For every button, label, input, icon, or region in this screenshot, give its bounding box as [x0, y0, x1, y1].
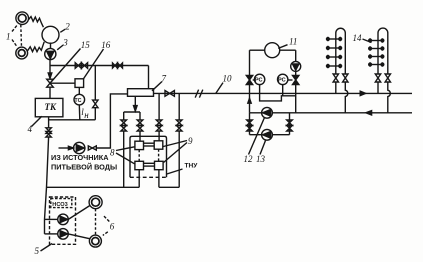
- upper header line: [50, 65, 149, 67]
- double link top pair: [144, 142, 155, 144]
- wire valve to filter 16: [50, 82, 75, 84]
- svg-text:н: н: [84, 110, 89, 120]
- well 1 upper (double circle): [16, 12, 29, 25]
- wire tank2 to pump3: [50, 43, 52, 49]
- col2 right hop over main to return: [388, 82, 390, 113]
- U return right: [159, 186, 179, 188]
- valve col1 left: [333, 74, 338, 82]
- wire filter to TC: [78, 87, 80, 94]
- svg-text:РС: РС: [255, 78, 263, 84]
- leader 9b: [164, 143, 188, 163]
- right riser to valve: [295, 71, 297, 75]
- distribution header 7 (rect): [128, 89, 154, 97]
- valve pair on header (right): [113, 63, 118, 68]
- wire pump lower to well: [68, 234, 89, 239]
- heat exchanger square s1: [135, 141, 144, 149]
- injection well 6 upper (double circle): [89, 196, 102, 209]
- dashed vertical links: [138, 150, 140, 162]
- leader 8b: [116, 153, 135, 164]
- heat exchanger square s2: [154, 141, 163, 149]
- dosing pump upper (circle right triangle): [58, 214, 69, 225]
- leader 5: [41, 244, 53, 252]
- svg-text:НСО3: НСО3: [52, 202, 67, 208]
- flow arrow right on main: [360, 91, 365, 95]
- check valve: [88, 146, 96, 150]
- regulator PC left: [254, 74, 264, 84]
- drinking water inlet line: [59, 147, 75, 149]
- pump 12 (circle left triangle): [262, 107, 273, 118]
- double valve p4: [176, 120, 182, 126]
- pipe p3 to condenser: [158, 131, 160, 141]
- flow arrow down: [48, 73, 52, 78]
- col1 right hop over main to return: [345, 82, 347, 113]
- double valve p1: [121, 120, 127, 126]
- stub col1 left to main: [335, 82, 337, 93]
- TNU dashed boundary box: [130, 136, 167, 177]
- heat exchanger square s4: [155, 161, 164, 169]
- pipe p4 lower: [178, 131, 180, 187]
- leader 8a: [116, 147, 135, 151]
- wire pump3 down: [49, 60, 51, 75]
- pump 3 (circle with down triangle): [45, 48, 56, 59]
- svg-text:ТС: ТС: [74, 98, 81, 104]
- wire branch down at x=95: [94, 66, 96, 101]
- diagram groups inserted below: [6, 12, 149, 234]
- wire TK down: [48, 117, 50, 128]
- valve pair on header (left): [75, 63, 81, 69]
- leader 1a: [12, 25, 18, 32]
- well 1 lower (double circle): [16, 47, 28, 59]
- svg-text:2: 2: [65, 21, 70, 31]
- right riser lower: [289, 113, 291, 135]
- valve col2 left: [375, 74, 380, 82]
- svg-text:10: 10: [223, 74, 233, 84]
- leader 2: [60, 29, 65, 32]
- pipe p1 lower: [123, 131, 125, 187]
- impulse staircase wire: [260, 93, 296, 101]
- wavy link lower well to pump line: [28, 42, 45, 52]
- control valve right (filled): [293, 75, 299, 80]
- leader 4: [32, 116, 42, 126]
- TK box: [35, 98, 63, 116]
- svg-text:15: 15: [81, 40, 91, 50]
- filter 16 (square): [75, 79, 84, 88]
- svg-text:8: 8: [110, 147, 115, 157]
- wire lower horizontal: [49, 119, 96, 121]
- double link bottom pair: [144, 162, 155, 164]
- double valve left riser: [247, 120, 253, 126]
- leader 6: [104, 216, 110, 222]
- leader 11: [278, 45, 287, 49]
- right riser through main to return: [295, 85, 297, 113]
- valve 15 (vertical bowtie below pump): [47, 79, 54, 87]
- loop top left: [250, 49, 265, 51]
- bottom run with pump 13: [250, 134, 290, 136]
- valve on main line: [165, 91, 174, 97]
- heat exchanger square s3: [135, 161, 144, 169]
- pipe p1 upper: [123, 112, 125, 120]
- pipe p4 from main: [178, 93, 180, 120]
- leader 16: [83, 49, 104, 80]
- wire riser to pump upper: [45, 218, 58, 220]
- svg-text:ИЗ ИСТОЧНИКА: ИЗ ИСТОЧНИКА: [51, 153, 109, 162]
- svg-text:14: 14: [353, 33, 363, 43]
- stub PC-right down: [282, 84, 284, 96]
- wire valve to TK box: [49, 87, 51, 98]
- svg-text:РС: РС: [278, 78, 286, 84]
- flow arrow up on left riser: [248, 98, 251, 103]
- flow arrow right: [68, 146, 73, 150]
- leader 3: [57, 45, 63, 50]
- wire header7 down: [134, 96, 136, 112]
- dashed link between wells: [20, 25, 23, 47]
- leader 12: [249, 118, 265, 155]
- column 14 #1 riser pair with arc: [336, 28, 346, 74]
- leader 7: [152, 82, 162, 91]
- pump 13 (circle left triangle): [262, 129, 273, 140]
- wavy link upper well to tank 2: [29, 17, 44, 28]
- sensor TC (circle): [74, 94, 85, 105]
- stub PC-right to valve: [288, 79, 293, 81]
- wire pump upper to well: [68, 206, 89, 220]
- svg-text:ПИТЬЕВОЙ ВОДЫ: ПИТЬЕВОЙ ВОДЫ: [51, 162, 117, 171]
- wire s3 down: [138, 170, 140, 188]
- HCO3 label box: [51, 199, 72, 208]
- return line: [250, 112, 413, 114]
- U return left: [47, 186, 140, 188]
- injection well 6 lower (double circle): [89, 235, 101, 247]
- left riser lower with valve: [249, 113, 251, 135]
- svg-text:1: 1: [6, 32, 11, 42]
- right riser upper: [295, 50, 297, 61]
- stub PC-left to valve: [253, 79, 255, 81]
- leader 9a: [163, 141, 187, 147]
- nozzles col1: [327, 37, 342, 68]
- regulator PC right: [278, 74, 288, 84]
- circulation pump (circle down triangle): [291, 61, 301, 71]
- wire s4 down: [158, 170, 160, 188]
- boiler 11 (circle): [265, 43, 280, 58]
- wire left riser down: [45, 137, 49, 234]
- leader 13: [260, 141, 266, 155]
- dashed dosing unit box 5: [50, 197, 76, 244]
- dashed link wells: [95, 209, 97, 235]
- wire header down to rect 7: [148, 66, 150, 89]
- valve on branch: [93, 100, 98, 108]
- leader 14: [363, 39, 372, 43]
- pipe p3 from main: [158, 93, 160, 120]
- svg-text:12: 12: [244, 154, 254, 164]
- main supply line: [154, 92, 413, 94]
- valve col2 right: [385, 74, 390, 82]
- column 14 #2 riser pair with arc: [378, 28, 388, 74]
- pipe p2 to evaporator: [139, 131, 141, 141]
- nozzles col2: [369, 38, 384, 66]
- double valve below TK: [46, 128, 51, 134]
- valve col1 right: [343, 74, 348, 82]
- leader 15: [52, 49, 81, 82]
- double valve p2: [137, 120, 143, 126]
- leader 10: [216, 83, 223, 94]
- dosing pump lower (circle right triangle): [58, 229, 69, 240]
- tank 2 (circle): [42, 26, 59, 43]
- loop top right: [280, 49, 296, 51]
- svg-text:5: 5: [35, 246, 40, 256]
- svg-text:9: 9: [188, 136, 193, 146]
- leader TNU: [167, 169, 183, 174]
- svg-text:16: 16: [101, 40, 111, 50]
- double valve right riser: [287, 120, 293, 126]
- svg-text:6: 6: [110, 221, 115, 231]
- line break mark 10: [195, 90, 198, 98]
- manifold wire: [124, 111, 140, 113]
- wire riser to pump lower: [45, 233, 58, 235]
- pipe p2 upper: [139, 112, 141, 120]
- stub col2 left to main: [377, 82, 379, 93]
- wire water to header 7: [96, 94, 127, 148]
- svg-text:ТК: ТК: [45, 102, 57, 112]
- flow arrow down: [134, 106, 138, 111]
- wire TC down: [78, 105, 81, 120]
- peak boiler loop left riser: [249, 50, 251, 93]
- svg-text:11: 11: [289, 36, 297, 46]
- svg-text:ТНУ: ТНУ: [185, 162, 199, 169]
- double valve p3: [156, 120, 162, 126]
- control valve left (filled): [246, 75, 252, 80]
- flow arrow left on return: [366, 111, 372, 115]
- stub PC-left down: [259, 84, 261, 93]
- water pump (circle right triangle): [74, 142, 85, 153]
- svg-text:13: 13: [256, 154, 266, 164]
- wire branch to lower tee: [94, 108, 96, 120]
- leader 1b: [12, 40, 17, 47]
